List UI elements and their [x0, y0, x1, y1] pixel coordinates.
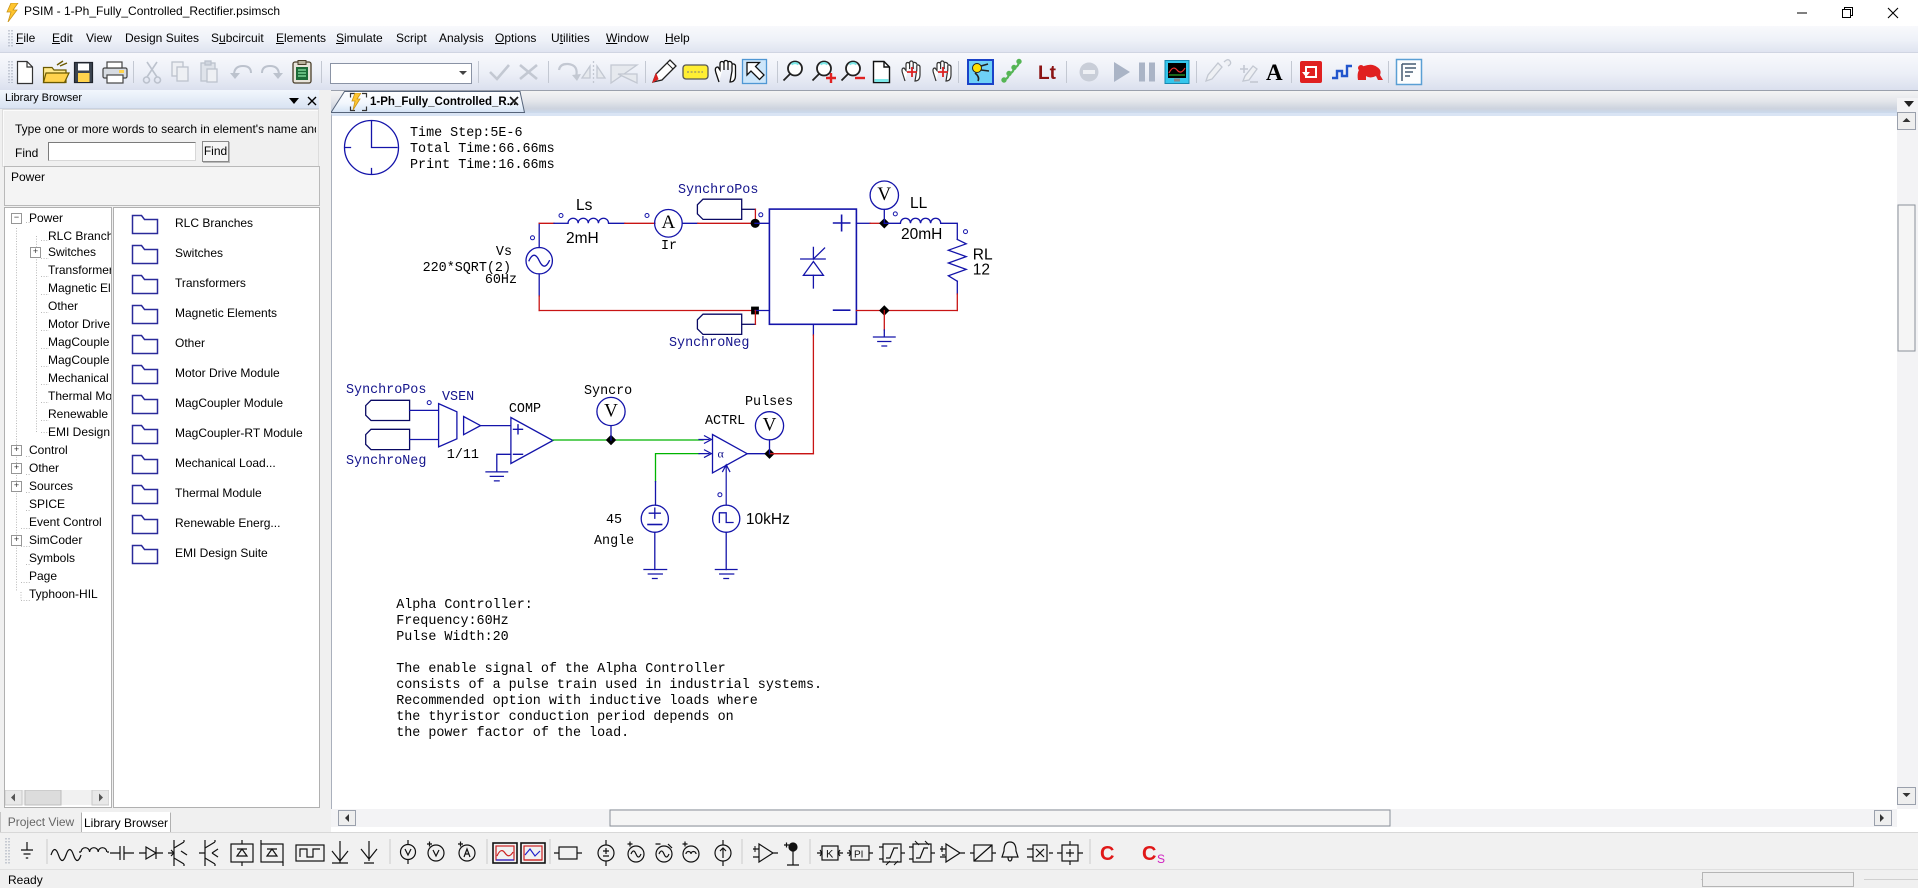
icon: current source: [715, 840, 731, 866]
svg-text:consists of a pulse train used: consists of a pulse train used in indust…: [396, 678, 822, 693]
wire: [856, 310, 957, 312]
svg-text:Ls: Ls: [576, 197, 593, 214]
wire (green): [656, 454, 700, 482]
annotation text block: [396, 598, 822, 741]
clock annotation symbol: [345, 121, 399, 175]
comparator COMP: [509, 402, 553, 464]
open: [44, 61, 70, 83]
pause (disabled): [1139, 63, 1155, 82]
x disabled: [520, 65, 537, 79]
toolbar: [0, 53, 1918, 91]
simview scope: [1165, 61, 1189, 84]
svg-text:S: S: [1157, 852, 1165, 866]
svg-text:The enable signal of the Alpha: The enable signal of the Alpha Controlle…: [396, 662, 725, 677]
icon: voltmeter2: [427, 842, 444, 862]
icon: capacitor: [110, 846, 134, 860]
alpha controller ACTRL: [699, 414, 747, 505]
wire: [497, 454, 511, 472]
svg-text:PI: PI: [854, 850, 863, 861]
ground: [644, 570, 667, 579]
icon: dc source: [598, 840, 614, 866]
wire: [956, 294, 958, 311]
wire (gate, red): [770, 335, 814, 454]
svg-text:SynchroPos: SynchroPos: [678, 183, 758, 198]
left panel: [0, 90, 319, 836]
svg-text:Frequency:60Hz: Frequency:60Hz: [396, 614, 509, 629]
thermal module (red elephant): [1358, 65, 1383, 80]
icon: diode: [139, 847, 163, 859]
thyristor bridge BD1: [769, 209, 856, 324]
wire: [625, 222, 655, 224]
svg-text:K: K: [826, 849, 834, 861]
icon: mosfet: [199, 840, 218, 866]
wire: [725, 532, 727, 569]
wire: [554, 222, 568, 224]
wire: [884, 222, 900, 224]
icon: ac source: [628, 842, 645, 863]
tab bar: [0, 90, 330, 113]
icon: subcircuit: [1057, 841, 1083, 865]
disabled stop: [1080, 63, 1099, 82]
svg-text:SynchroNeg: SynchroNeg: [346, 454, 426, 469]
sensor VSEN: [439, 390, 475, 447]
wire: [941, 223, 958, 239]
icon: thyristor: [168, 840, 187, 866]
svg-text:10kHz: 10kHz: [746, 511, 790, 528]
node junction: [765, 449, 774, 458]
new: [18, 62, 33, 84]
svg-text:C: C: [1142, 843, 1156, 865]
svg-text:SynchroPos: SynchroPos: [346, 383, 426, 398]
svg-text:Pulses: Pulses: [745, 395, 793, 410]
icon: label flag 2: [361, 841, 377, 863]
source Vs: [526, 236, 552, 274]
svg-text:Ir: Ir: [661, 239, 677, 254]
icon: ac source 2: [656, 844, 673, 862]
check disabled: [490, 65, 509, 79]
svg-text:C: C: [1100, 843, 1114, 865]
pencil disabled: [1206, 60, 1231, 81]
label Vs value: [423, 245, 517, 288]
wire (green): [553, 439, 703, 441]
icon: bridge 2: [261, 840, 283, 866]
ground: [715, 570, 737, 579]
script editor (active): [1397, 60, 1422, 85]
sim settings: [293, 61, 311, 84]
zoom point (hand red): [902, 61, 920, 81]
waveform (blue): [1332, 66, 1352, 78]
icon: block: [554, 847, 582, 859]
icon: limiter 2: [909, 841, 935, 862]
voltmeter (output): [870, 181, 898, 223]
rotate disabled: [559, 64, 581, 81]
flip h disabled: [582, 61, 605, 84]
hand tool: [715, 61, 735, 83]
icon: probe node: [784, 843, 799, 866]
tree horizontal scrollbar: [5, 790, 109, 806]
square-wave source 10kHz: [713, 505, 790, 532]
icon: limiter 1: [879, 844, 905, 865]
wire check (green): [1002, 60, 1020, 82]
update netlist (red): [1300, 61, 1322, 83]
svg-text:Time Step:5E-6: Time Step:5E-6: [410, 126, 523, 141]
icon: transfer block: [970, 845, 996, 861]
icon: scope2: [521, 843, 545, 863]
element probe (highlight): [968, 60, 993, 84]
svg-text:V: V: [877, 184, 891, 205]
svg-text:2mH: 2mH: [566, 230, 599, 247]
simulation control text: [410, 126, 555, 173]
wire: [481, 425, 511, 427]
svg-text:A: A: [662, 212, 676, 233]
cut (disabled): [144, 62, 161, 83]
svg-text:45: 45: [606, 513, 622, 528]
zoom: [784, 62, 803, 81]
icon: scope: [493, 843, 517, 863]
run (disabled): [1114, 62, 1130, 82]
icon: opamp: [753, 844, 778, 862]
bottom tabs of panel: [0, 812, 82, 834]
wire: [747, 453, 769, 455]
icon: square pulse: [296, 845, 324, 861]
label SynchroNeg (control): [346, 429, 426, 469]
svg-text:α: α: [718, 447, 725, 461]
svg-text:Syncro: Syncro: [584, 384, 632, 399]
icon: bridge 1: [231, 840, 253, 866]
icon: ground: [21, 842, 33, 858]
wire (red): [770, 453, 814, 455]
ground: [874, 311, 896, 347]
wire: [410, 409, 439, 411]
svg-text:LL: LL: [910, 195, 928, 212]
label SynchroPos: [678, 183, 758, 223]
node junction: [751, 219, 760, 228]
svg-text:20mH: 20mH: [901, 226, 942, 243]
svg-text:V: V: [763, 415, 777, 436]
gain 1/11: [447, 417, 481, 464]
zoom in: [813, 62, 837, 84]
wire: [539, 310, 755, 312]
svg-text:the thyristor conduction perio: the thyristor conduction period depends …: [396, 710, 734, 725]
pencil: [653, 60, 676, 82]
wire: [956, 281, 958, 294]
svg-text:Pulse Width:20: Pulse Width:20: [396, 630, 509, 645]
svg-text:Angle: Angle: [594, 534, 634, 549]
wire: [410, 439, 439, 441]
icon: rlc sine: [51, 850, 81, 861]
label tool: [683, 65, 708, 79]
node junction: [752, 307, 759, 314]
svg-text:12: 12: [973, 262, 990, 279]
svg-text:COMP: COMP: [509, 402, 541, 417]
wire: [538, 296, 540, 311]
icon: ammeter: [458, 842, 475, 862]
wire: [538, 223, 540, 247]
node junction: [607, 436, 616, 445]
wire: [538, 274, 540, 296]
wire: [870, 222, 884, 224]
node junction: [880, 219, 889, 228]
pencil +/- disabled: [1240, 65, 1258, 82]
svg-text:SynchroNeg: SynchroNeg: [669, 336, 749, 351]
voltmeter Syncro: [584, 384, 632, 440]
label SynchroNeg: [669, 311, 755, 352]
menu bar: [0, 26, 1918, 53]
title bar: [0, 0, 1918, 26]
svg-text:V: V: [604, 400, 618, 421]
fit page: [874, 62, 890, 83]
dc source 45 (Angle): [594, 505, 668, 549]
inductor Ls: [568, 218, 609, 223]
icon: bell: [1002, 842, 1018, 861]
icon: PI: [847, 846, 873, 861]
svg-text:Alpha Controller:: Alpha Controller:: [396, 598, 533, 613]
icon: coil source: [683, 842, 700, 863]
zoom out: [842, 62, 866, 81]
zoom area (hand plus): [933, 61, 951, 81]
wire: [812, 324, 814, 335]
svg-text:VSEN: VSEN: [442, 390, 474, 405]
status bar: [0, 869, 1918, 888]
inductor LL: [900, 195, 942, 243]
canvas h scrollbar: [331, 809, 1897, 827]
node junction: [880, 306, 889, 315]
svg-text:Vs: Vs: [496, 245, 512, 260]
svg-text:60Hz: 60Hz: [485, 273, 517, 288]
icon: inductor: [79, 848, 109, 852]
icon: Cs: [1142, 843, 1165, 866]
icon: comparator: [940, 844, 965, 862]
svg-text:Total Time:66.66ms: Total Time:66.66ms: [410, 142, 555, 157]
redo (disabled): [262, 66, 283, 79]
print: [103, 62, 127, 83]
wire: [539, 222, 554, 224]
wire: [755, 222, 769, 224]
icon: mux: [1027, 845, 1053, 861]
copy (disabled): [172, 62, 188, 81]
svg-text:Recommended option with induct: Recommended option with inductive loads …: [396, 694, 758, 709]
canvas v scrollbar: [1897, 98, 1918, 809]
ground: [486, 472, 508, 481]
resistor RL: [948, 239, 993, 281]
flip v disabled: [611, 65, 637, 83]
canvas: [331, 113, 1897, 809]
select tool (active): [743, 60, 767, 84]
wire: [698, 222, 755, 224]
svg-text:1/11: 1/11: [447, 448, 479, 463]
paste (disabled): [201, 61, 217, 82]
wire: [755, 310, 769, 312]
wire: [856, 222, 870, 224]
bottom toolbar: [0, 832, 1918, 870]
ammeter Ir: [655, 210, 683, 255]
undo (disabled): [230, 66, 251, 79]
wire: [654, 532, 656, 569]
wire: [682, 222, 698, 224]
save: [75, 63, 93, 83]
icon: label flag 1: [332, 841, 348, 863]
icon: gain K: [817, 846, 843, 861]
wire: [655, 482, 657, 506]
svg-text:the power factor of the load.: the power factor of the load.: [396, 726, 629, 741]
label SynchroPos (control): [346, 383, 426, 421]
svg-text:ACTRL: ACTRL: [705, 414, 745, 429]
svg-text:Print Time:16.66ms: Print Time:16.66ms: [410, 158, 555, 173]
voltmeter Pulses: [745, 395, 793, 454]
wire: [609, 222, 625, 224]
icon: voltmeter: [401, 840, 416, 864]
